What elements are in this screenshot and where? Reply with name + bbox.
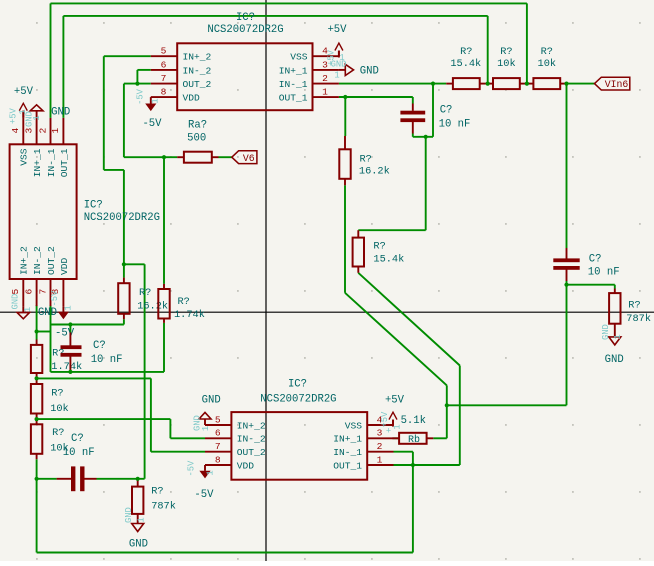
svg-text:GND: GND <box>124 507 134 523</box>
svg-text:C?: C? <box>93 340 106 352</box>
svg-text:NCS20072DR2G: NCS20072DR2G <box>84 212 160 224</box>
svg-text:C?: C? <box>71 433 84 445</box>
svg-text:15.4k: 15.4k <box>450 58 481 70</box>
svg-text:VIn6: VIn6 <box>605 79 629 90</box>
svg-text:6: 6 <box>23 288 34 294</box>
svg-text:+5V: +5V <box>385 394 405 406</box>
svg-text:5: 5 <box>215 414 221 425</box>
svg-text:5: 5 <box>161 46 167 57</box>
svg-text:-5V: -5V <box>194 489 214 501</box>
svg-text:1: 1 <box>63 305 73 310</box>
svg-text:+5V: +5V <box>380 411 390 428</box>
svg-text:IN-_2: IN-_2 <box>183 65 212 76</box>
svg-text:15.4k: 15.4k <box>373 253 404 265</box>
svg-text:R?: R? <box>139 287 151 299</box>
svg-text:R?: R? <box>628 300 640 312</box>
svg-text:Ra?: Ra? <box>188 120 207 132</box>
svg-text:+: + <box>386 427 391 437</box>
svg-text:+5V: +5V <box>327 24 347 36</box>
svg-text:R?: R? <box>52 427 64 439</box>
svg-text:1: 1 <box>23 307 33 312</box>
svg-text:1: 1 <box>201 426 211 431</box>
svg-text:1: 1 <box>151 98 161 103</box>
svg-text:1: 1 <box>137 517 147 522</box>
svg-text:3: 3 <box>377 428 383 439</box>
svg-text:NCS20072DR2G: NCS20072DR2G <box>207 24 283 36</box>
svg-text:OUT_1: OUT_1 <box>333 460 362 471</box>
svg-text:OUT_1: OUT_1 <box>59 148 70 177</box>
svg-text:GND: GND <box>10 294 20 310</box>
svg-text:1: 1 <box>206 470 216 475</box>
svg-text:GND: GND <box>129 539 148 551</box>
svg-text:IN+_2: IN+_2 <box>19 246 30 275</box>
svg-text:1: 1 <box>613 334 623 339</box>
svg-text:GND: GND <box>331 60 347 70</box>
svg-text:R?: R? <box>178 296 190 308</box>
svg-text:2: 2 <box>377 441 383 452</box>
svg-text:4: 4 <box>10 127 21 133</box>
svg-text:2: 2 <box>37 127 48 133</box>
svg-text:1.74k: 1.74k <box>51 361 82 373</box>
svg-text:500: 500 <box>187 132 206 144</box>
svg-text:3: 3 <box>23 127 34 133</box>
svg-text:IN-_2: IN-_2 <box>237 434 266 445</box>
svg-text:1: 1 <box>334 71 339 81</box>
svg-text:OUT_2: OUT_2 <box>183 79 212 90</box>
svg-text:16.2k: 16.2k <box>137 301 168 313</box>
svg-text:+5V: +5V <box>14 86 34 98</box>
svg-text:-5V: -5V <box>142 118 162 130</box>
svg-text:C?: C? <box>589 254 602 266</box>
svg-text:OUT_2: OUT_2 <box>237 447 266 458</box>
svg-text:R?: R? <box>151 485 163 497</box>
svg-text:NCS20072DR2G: NCS20072DR2G <box>260 394 336 406</box>
svg-text:GND: GND <box>51 107 70 119</box>
svg-text:IN+_2: IN+_2 <box>183 52 212 63</box>
svg-text:1: 1 <box>50 127 61 133</box>
svg-text:VDD: VDD <box>183 93 201 104</box>
svg-text:1: 1 <box>377 454 383 465</box>
svg-text:IN+_2: IN+_2 <box>237 420 266 431</box>
svg-text:7: 7 <box>215 441 221 452</box>
svg-text:V6: V6 <box>243 153 255 164</box>
svg-text:IC?: IC? <box>288 379 307 391</box>
svg-text:IN+_1: IN+_1 <box>333 434 362 445</box>
svg-text:OUT_2: OUT_2 <box>46 246 57 275</box>
svg-text:R?: R? <box>500 46 512 58</box>
svg-text:C?: C? <box>440 105 453 117</box>
svg-text:10 nF: 10 nF <box>588 267 620 279</box>
svg-text:1.74k: 1.74k <box>174 309 205 321</box>
svg-text:10k: 10k <box>50 403 69 415</box>
svg-text:8: 8 <box>215 454 221 465</box>
svg-text:-5V: -5V <box>136 88 146 105</box>
svg-text:5.1k: 5.1k <box>401 415 426 427</box>
svg-text:VSS: VSS <box>345 420 363 431</box>
svg-text:1: 1 <box>32 115 42 120</box>
svg-text:IN+_1: IN+_1 <box>32 148 43 177</box>
svg-text:IC?: IC? <box>84 200 103 212</box>
svg-text:787k: 787k <box>626 313 651 325</box>
svg-text:7: 7 <box>161 73 167 84</box>
svg-text:GND: GND <box>605 354 624 366</box>
svg-text:GND: GND <box>601 324 611 340</box>
svg-text:GND: GND <box>202 394 221 406</box>
svg-text:R?: R? <box>360 153 372 165</box>
svg-text:10 nF: 10 nF <box>439 119 471 131</box>
svg-text:-5V: -5V <box>50 290 60 307</box>
svg-text:6: 6 <box>215 428 221 439</box>
svg-text:IN-_1: IN-_1 <box>46 148 57 177</box>
svg-text:GND: GND <box>360 66 379 78</box>
svg-text:6: 6 <box>161 59 167 70</box>
svg-text:GND: GND <box>38 307 57 319</box>
svg-text:VSS: VSS <box>19 148 30 166</box>
svg-text:-5V: -5V <box>55 328 75 340</box>
svg-text:-5V: -5V <box>187 460 197 477</box>
svg-text:R?: R? <box>373 241 385 253</box>
svg-text:1: 1 <box>322 87 328 98</box>
svg-text:IC?: IC? <box>236 12 255 24</box>
svg-text:IN-_1: IN-_1 <box>279 79 308 90</box>
svg-text:Rb: Rb <box>408 434 420 446</box>
svg-text:10 nF: 10 nF <box>91 354 123 366</box>
svg-text:R?: R? <box>541 46 553 58</box>
svg-text:OUT_1: OUT_1 <box>279 93 308 104</box>
svg-text:787k: 787k <box>151 501 176 513</box>
svg-text:IN+_1: IN+_1 <box>279 65 308 76</box>
svg-text:VDD: VDD <box>237 460 255 471</box>
svg-text:7: 7 <box>37 289 48 295</box>
svg-text:2: 2 <box>322 73 328 84</box>
svg-text:16.2k: 16.2k <box>359 166 390 178</box>
svg-text:8: 8 <box>161 87 167 98</box>
svg-text:VDD: VDD <box>59 257 70 275</box>
svg-text:R?: R? <box>51 388 63 400</box>
svg-text:VSS: VSS <box>290 52 308 63</box>
svg-text:10k: 10k <box>497 58 516 70</box>
svg-text:R?: R? <box>460 46 472 58</box>
svg-text:10k: 10k <box>538 58 557 70</box>
svg-text:IN-_1: IN-_1 <box>333 447 362 458</box>
svg-text:10 nF: 10 nF <box>63 447 95 459</box>
svg-text:5: 5 <box>10 288 21 294</box>
svg-text:IN-_2: IN-_2 <box>32 246 43 275</box>
